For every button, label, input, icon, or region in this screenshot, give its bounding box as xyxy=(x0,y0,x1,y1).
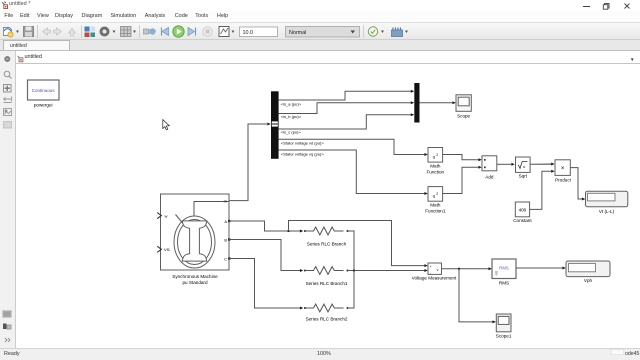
canvas xyxy=(16,64,640,348)
wire common node RLC right side xyxy=(348,231,356,308)
wire machine C to RLC branch2 xyxy=(229,259,303,310)
status bar xyxy=(0,348,640,360)
wire A junction to voltage measurement plus xyxy=(289,221,428,268)
svg-text:Vf1: Vf1 xyxy=(164,247,171,252)
wire bus out 3 to mux xyxy=(279,113,415,129)
svg-text:Constant: Constant xyxy=(513,218,532,223)
voltage measurement block xyxy=(412,263,457,281)
svg-text:pu Standard: pu Standard xyxy=(182,280,207,285)
mux xyxy=(414,83,419,123)
wire bus out 1 to mux xyxy=(279,90,415,100)
series RLC branch2 xyxy=(304,304,349,321)
wire node to voltage measurement minus xyxy=(354,269,428,272)
wire mux to scope xyxy=(420,101,456,104)
wire product to display xyxy=(570,168,585,201)
RMS block xyxy=(492,259,516,286)
constant block xyxy=(513,202,532,223)
title bar xyxy=(0,0,640,11)
svg-text:A: A xyxy=(224,219,227,224)
svg-text:Sqrt: Sqrt xyxy=(519,174,528,179)
wire machine A to RLC branch xyxy=(229,221,303,233)
display Vph xyxy=(566,261,610,283)
menu bar xyxy=(0,11,640,22)
svg-text:Vph: Vph xyxy=(584,278,593,283)
tab bar xyxy=(0,40,640,51)
powergui block xyxy=(28,80,60,108)
add block xyxy=(482,156,497,180)
sqrt block xyxy=(516,157,531,179)
svg-text:u: u xyxy=(433,194,436,199)
svg-text:Continuous: Continuous xyxy=(32,88,56,93)
svg-text:u: u xyxy=(433,155,436,160)
wire math function1 to add xyxy=(443,166,482,194)
svg-text:v: v xyxy=(437,268,439,272)
svg-text:<is_c (pu)>: <is_c (pu)> xyxy=(281,130,302,135)
mouse cursor xyxy=(163,120,170,130)
svg-text:-: - xyxy=(430,271,431,275)
display Vt (L-L) xyxy=(586,191,628,214)
breadcrumb xyxy=(16,51,640,64)
svg-text:Add: Add xyxy=(485,174,494,179)
svg-text:C: C xyxy=(224,256,227,261)
wire bus out 5 to math function1 xyxy=(279,150,428,195)
svg-text:w: w xyxy=(165,213,168,218)
svg-text:Math: Math xyxy=(430,203,441,208)
wire bus out 2 to mux xyxy=(279,101,415,113)
svg-text:RMS: RMS xyxy=(499,265,509,270)
wire voltage measurement to RMS xyxy=(442,267,492,270)
svg-text:Function: Function xyxy=(426,170,444,175)
svg-text:<Stator voltage vd (pu)>: <Stator voltage vd (pu)> xyxy=(281,140,325,145)
svg-text:Vt (L-L): Vt (L-L) xyxy=(599,209,615,214)
svg-text:Function1: Function1 xyxy=(425,209,446,214)
math function block xyxy=(426,148,444,175)
toolbar xyxy=(0,22,640,40)
svg-text:Product: Product xyxy=(555,178,572,183)
svg-text:u: u xyxy=(523,164,525,169)
svg-text:<Stator voltage vq (pu)>: <Stator voltage vq (pu)> xyxy=(281,152,325,157)
wire m port to bus selector xyxy=(229,123,271,201)
svg-text:<is_b (pu)>: <is_b (pu)> xyxy=(281,114,302,119)
svg-text:Series RLC Branch2: Series RLC Branch2 xyxy=(306,316,348,321)
svg-text:RMS: RMS xyxy=(499,281,509,286)
series RLC branch xyxy=(304,227,349,246)
series RLC branch1 xyxy=(304,267,349,286)
svg-text:powergui: powergui xyxy=(34,103,53,108)
svg-text:Synchronous Machine: Synchronous Machine xyxy=(172,274,218,279)
svg-text:×: × xyxy=(561,166,565,172)
svg-text:<is_a (pu)>: <is_a (pu)> xyxy=(281,101,302,106)
svg-text:2: 2 xyxy=(436,192,438,196)
wire add to sqrt xyxy=(497,163,515,166)
wire constant to product xyxy=(530,170,555,210)
wire math function to add xyxy=(443,155,482,162)
svg-text:Series RLC Branch1: Series RLC Branch1 xyxy=(306,281,348,286)
svg-text:10.0: 10.0 xyxy=(243,30,254,36)
synchronous machine block U1 xyxy=(157,194,230,285)
svg-text:Scope1: Scope1 xyxy=(496,333,512,338)
svg-text:Normal: Normal xyxy=(289,30,306,36)
wire sqrt to product xyxy=(530,163,555,166)
bus selector xyxy=(271,91,279,159)
svg-text:2: 2 xyxy=(436,153,438,157)
svg-text:400: 400 xyxy=(519,208,527,213)
math function1 block xyxy=(425,187,446,214)
scope1 block xyxy=(496,314,512,338)
wire junction to scope1 xyxy=(459,269,496,324)
wire RMS to Vph display xyxy=(516,267,566,270)
left palette xyxy=(0,51,16,348)
wire bus out 4 to math function xyxy=(279,139,428,156)
wire machine B to RLC branch1 xyxy=(229,240,303,273)
svg-text:Series RLC Branch: Series RLC Branch xyxy=(307,241,347,246)
svg-text:Voltage Measurement: Voltage Measurement xyxy=(412,276,457,281)
product block xyxy=(555,160,572,183)
svg-text:B: B xyxy=(224,237,227,242)
svg-text:Scope: Scope xyxy=(457,114,470,119)
svg-text:+: + xyxy=(430,265,432,269)
scope block xyxy=(456,95,471,119)
svg-text:Math: Math xyxy=(430,164,441,169)
